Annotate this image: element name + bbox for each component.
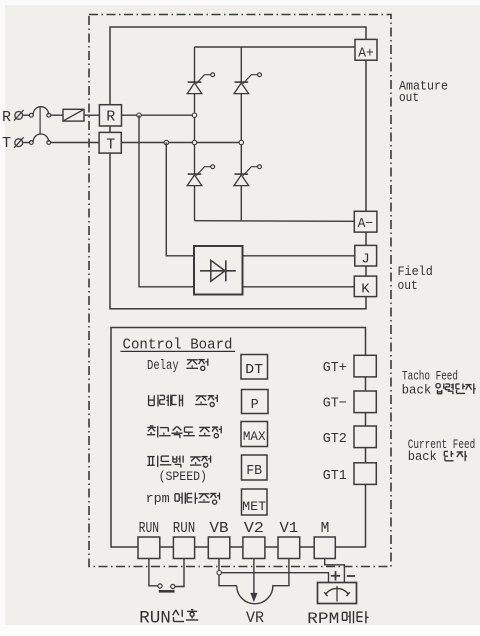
- run switch contact right: [171, 584, 175, 588]
- terminal box RUN: [138, 537, 160, 559]
- node R-field tap: [137, 113, 141, 117]
- wire M down to meter minus: [325, 559, 345, 583]
- wire R tap down to field rectifier: [139, 115, 194, 287]
- svg-text:GT1: GT1: [323, 468, 347, 484]
- wire VB tap to meter plus: [221, 573, 328, 583]
- wire T to bridge: [121, 142, 241, 144]
- svg-text:RUN: RUN: [173, 521, 195, 537]
- svg-text:K: K: [361, 281, 370, 297]
- wire R to bridge: [122, 114, 195, 116]
- label max speed adjust: [147, 426, 195, 438]
- svg-text:VR: VR: [246, 609, 264, 627]
- svg-text:FB: FB: [246, 464, 262, 479]
- wire right column mid: [240, 94, 242, 175]
- svg-text:out: out: [398, 278, 418, 293]
- wire switch to fuse: [51, 114, 63, 116]
- svg-text:A+: A+: [358, 46, 374, 62]
- terminal box J: [355, 245, 377, 266]
- svg-text:V1: V1: [280, 521, 299, 537]
- svg-text:MET: MET: [242, 499, 266, 514]
- node T-right column: [239, 140, 243, 144]
- T input terminal: [15, 139, 23, 147]
- trimmer P: [242, 390, 269, 414]
- terminal box GT1: [354, 463, 376, 485]
- run switch contact left: [158, 584, 162, 588]
- trimmer FB: [242, 455, 268, 480]
- terminal box GT+: [354, 355, 376, 377]
- trimmer DT: [241, 355, 268, 380]
- terminal box R: [99, 105, 121, 126]
- node R-left column: [192, 113, 196, 117]
- terminal box VB: [208, 537, 230, 559]
- potentiometer VR body: [237, 559, 289, 604]
- wire VB to VR: [219, 575, 237, 586]
- svg-text:back: back: [408, 450, 437, 464]
- svg-text:T: T: [2, 135, 11, 152]
- svg-text:A−: A−: [358, 216, 374, 232]
- svg-text:GT2: GT2: [323, 431, 347, 447]
- svg-text:P: P: [251, 398, 259, 413]
- wire right column to A- bus: [240, 185, 242, 220]
- switch mechanical link: [39, 107, 41, 135]
- wire R terminal to switch: [23, 114, 30, 116]
- terminal box M: [314, 537, 335, 559]
- svg-text:RPM: RPM: [307, 610, 339, 628]
- svg-text:VB: VB: [210, 521, 229, 537]
- terminal box T: [99, 132, 121, 153]
- thyristor SCR4 (bottom right): [234, 165, 261, 186]
- terminal box A+: [355, 39, 377, 60]
- wire A+ bus: [195, 46, 356, 48]
- node T-field tap: [164, 140, 168, 144]
- switch S2 (T phase): [29, 141, 33, 145]
- wire A- bus: [195, 220, 357, 223]
- wire A+ bus drop right: [240, 47, 242, 82]
- wire rectifier to K: [243, 286, 357, 288]
- trimmer MET: [242, 489, 268, 515]
- wire T tap down to field rectifier: [166, 143, 194, 256]
- terminal box GT−: [354, 391, 376, 413]
- wire T terminal to switch: [23, 142, 30, 144]
- terminal box K: [354, 276, 376, 297]
- field rectifier diode: [200, 270, 236, 272]
- thyristor SCR3 (bottom left): [187, 165, 214, 186]
- svg-text:back: back: [402, 384, 432, 398]
- field rectifier box: [194, 246, 243, 295]
- svg-text:R: R: [2, 109, 11, 126]
- terminal box V2: [243, 537, 265, 559]
- wire fuse to R box: [84, 114, 99, 116]
- terminal box A-: [354, 211, 377, 232]
- label feedback adjust: [147, 456, 183, 468]
- wire left column mid: [194, 94, 196, 175]
- svg-text:(SPEED): (SPEED): [159, 469, 207, 484]
- switch S1 (R phase): [29, 113, 33, 117]
- terminal box V1: [278, 537, 300, 559]
- svg-text:DT: DT: [245, 363, 263, 378]
- svg-text:GT−: GT−: [323, 396, 347, 412]
- potentiometer VR wiper from V2: [253, 559, 255, 598]
- meter minus sign: [347, 575, 355, 577]
- svg-text:Tacho Feed: Tacho Feed: [402, 369, 458, 383]
- control board box outline: [111, 328, 366, 548]
- svg-text:J: J: [361, 252, 369, 268]
- label proportional adjust: [149, 395, 183, 407]
- svg-text:R: R: [106, 109, 115, 126]
- svg-text:T: T: [106, 137, 115, 154]
- svg-text:Field: Field: [398, 264, 433, 279]
- wire left column to A- bus: [194, 185, 196, 220]
- svg-text:RUN: RUN: [139, 609, 171, 629]
- svg-text:GT+: GT+: [323, 360, 347, 376]
- RPM meter needle and scale: [336, 586, 338, 602]
- wire RUN2 down: [175, 559, 184, 587]
- run switch bar: [159, 590, 175, 593]
- svg-text:Delay: Delay: [147, 359, 179, 374]
- thyristor SCR2 (top right): [234, 73, 261, 94]
- svg-text:rpm: rpm: [146, 491, 170, 506]
- power unit box outline: [110, 27, 366, 309]
- svg-text:MAX: MAX: [243, 429, 266, 444]
- terminal box RUN: [173, 537, 194, 559]
- node T crossing left column: [192, 140, 196, 144]
- wire RUN1 down: [149, 559, 158, 586]
- outer dash-dot enclosure border: [89, 15, 391, 567]
- node VB tap: [217, 571, 221, 575]
- svg-text:RUN: RUN: [139, 521, 160, 537]
- thyristor SCR1 (top left): [187, 73, 214, 94]
- trimmer MAX: [241, 422, 268, 447]
- RPM meter body: [318, 583, 357, 604]
- svg-text:out: out: [399, 90, 419, 105]
- svg-text:M: M: [321, 521, 330, 537]
- svg-text:V2: V2: [244, 521, 264, 537]
- wire switch to T box: [51, 142, 100, 144]
- terminal box GT2: [354, 426, 376, 448]
- meter plus sign: [331, 575, 340, 577]
- wire VB down: [218, 559, 220, 571]
- fuse F1: [63, 109, 84, 121]
- wire A+ bus drop left: [194, 47, 196, 82]
- R input terminal: [15, 112, 23, 120]
- wire rectifier to J: [243, 255, 357, 257]
